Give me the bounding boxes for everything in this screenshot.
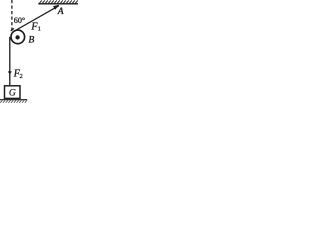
pulley B circle <box>11 30 25 44</box>
ground hatching <box>0 100 27 103</box>
svg-text:2: 2 <box>20 73 23 80</box>
force F1 arrowhead <box>53 5 59 10</box>
wire vertical rope to weight <box>9 37 11 86</box>
svg-text:1: 1 <box>38 25 41 32</box>
force F2 arrowhead <box>8 71 12 74</box>
weight box G <box>5 86 21 99</box>
svg-text:60°: 60° <box>14 16 25 25</box>
svg-text:A: A <box>57 7 64 17</box>
svg-text:G: G <box>9 88 16 99</box>
svg-text:B: B <box>28 35 34 46</box>
pulley B axle dot <box>15 35 19 39</box>
wire rope tangent to pulley up to A <box>14 6 59 32</box>
ground line <box>0 99 27 101</box>
dashed vertical reference line <box>11 0 13 31</box>
wire rope stub crossing dashed line (angle vertex) <box>11 28 14 31</box>
background <box>0 0 78 104</box>
ceiling hatching at A <box>38 0 78 3</box>
